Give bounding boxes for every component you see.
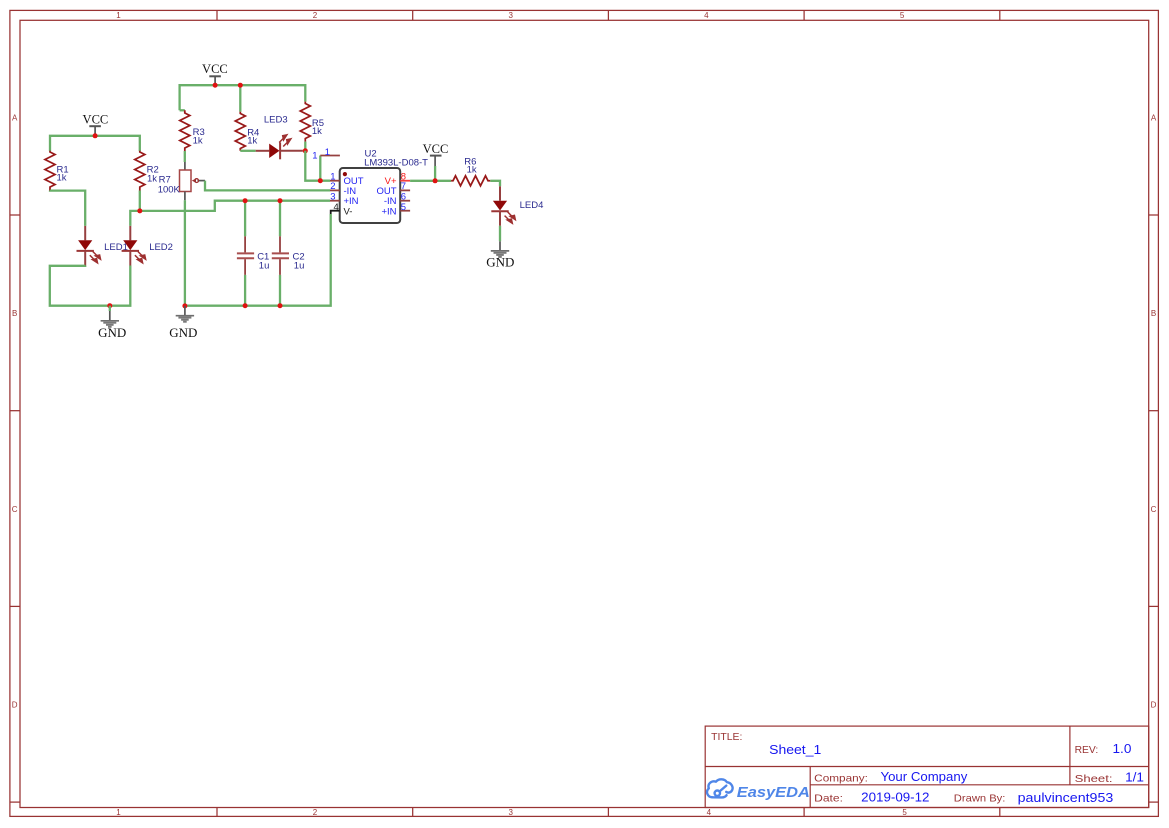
svg-text:Your Company: Your Company xyxy=(881,769,968,784)
svg-text:5: 5 xyxy=(902,808,907,817)
pin 5 stub xyxy=(400,210,410,212)
svg-text:Sheet_1: Sheet_1 xyxy=(769,742,821,757)
wire junction to +IN rail xyxy=(140,201,330,211)
power flag VCC (middle) xyxy=(202,62,228,85)
potentiometer R7 xyxy=(180,162,206,200)
ground GND3 xyxy=(486,241,514,269)
junction VCC2 xyxy=(213,83,218,88)
wire V- to GND rail xyxy=(185,214,331,306)
wire netport riser xyxy=(319,156,321,181)
svg-text:VCC: VCC xyxy=(202,62,228,76)
svg-text:+IN: +IN xyxy=(381,206,396,217)
svg-text:1k: 1k xyxy=(467,165,477,176)
svg-text:6: 6 xyxy=(401,191,406,202)
svg-text:1: 1 xyxy=(116,11,121,20)
junction R4 top xyxy=(238,83,243,88)
svg-text:Date:: Date: xyxy=(814,793,843,805)
wire to pin1 xyxy=(305,151,330,181)
wire jog to R3 xyxy=(180,109,185,111)
svg-text:GND: GND xyxy=(98,325,126,340)
power flag VCC (left) xyxy=(83,112,109,135)
resistor R1 xyxy=(45,151,55,191)
wire GND1 stub xyxy=(109,306,111,311)
svg-text:Company:: Company: xyxy=(814,773,868,785)
svg-text:LED4: LED4 xyxy=(520,200,544,211)
svg-text:1k: 1k xyxy=(193,136,203,147)
resistor R5 xyxy=(300,102,310,142)
svg-text:Drawn By:: Drawn By: xyxy=(954,793,1006,805)
junction pin1 xyxy=(318,178,323,183)
svg-text:1.0: 1.0 xyxy=(1113,741,1132,756)
svg-text:VCC: VCC xyxy=(423,142,449,156)
svg-text:1k: 1k xyxy=(312,126,322,137)
LED LED2 xyxy=(122,226,146,266)
pin 1 stub xyxy=(330,180,340,182)
wire R4 bottom to LED3 xyxy=(240,150,255,152)
wire pin8 to R6 xyxy=(410,180,451,182)
svg-text:A: A xyxy=(12,114,18,123)
wire R7 wiper to -IN xyxy=(205,181,330,191)
resistor R6 xyxy=(451,176,490,186)
svg-text:V-: V- xyxy=(344,206,353,217)
svg-text:2019-09-12: 2019-09-12 xyxy=(861,789,929,804)
wire R2 bottom to junction xyxy=(139,191,141,211)
wire LED1 bottom to GND rail xyxy=(50,266,131,306)
svg-text:2: 2 xyxy=(313,808,318,817)
wire R4 top xyxy=(239,85,241,112)
net stub 1 xyxy=(320,155,340,157)
resistor R4 xyxy=(235,112,245,151)
junction GND1 xyxy=(107,303,112,308)
ground GND1 xyxy=(98,311,126,340)
svg-text:3: 3 xyxy=(508,808,513,817)
junction C2 top xyxy=(278,198,283,203)
svg-text:1: 1 xyxy=(325,147,330,158)
wire R1 bottom to LED1 xyxy=(50,191,85,226)
wire LED4 to GND xyxy=(499,226,501,242)
junction C2 bottom xyxy=(278,303,283,308)
junction C1 bottom xyxy=(243,303,248,308)
wire junction to LED2 xyxy=(130,211,140,226)
junction VCC3 xyxy=(433,178,438,183)
pin 6 stub xyxy=(400,200,410,202)
svg-text:EasyEDA: EasyEDA xyxy=(737,784,810,801)
junction LED3/R5 xyxy=(303,148,308,153)
svg-text:1: 1 xyxy=(116,808,121,817)
junction R2/LED2 xyxy=(137,208,142,213)
wire R7 bottom to GND2 xyxy=(184,200,186,306)
junction at VCC1 xyxy=(93,133,98,138)
resistor R2 xyxy=(135,151,145,191)
LED LED4 xyxy=(491,186,515,226)
capacitor C1 xyxy=(237,201,254,306)
svg-text:C: C xyxy=(1151,505,1157,514)
resistor R3 xyxy=(180,110,190,151)
svg-text:paulvincent953: paulvincent953 xyxy=(1018,790,1114,805)
svg-text:B: B xyxy=(1151,309,1156,318)
svg-text:5: 5 xyxy=(401,202,406,213)
svg-text:Sheet:: Sheet: xyxy=(1075,773,1113,785)
svg-text:REV:: REV: xyxy=(1075,744,1099,756)
svg-text:4: 4 xyxy=(707,808,712,817)
svg-text:VCC: VCC xyxy=(83,112,109,126)
LED LED3 xyxy=(256,135,303,160)
svg-text:4: 4 xyxy=(334,202,339,213)
svg-text:TITLE:: TITLE: xyxy=(711,731,742,743)
capacitor C2 xyxy=(272,201,289,306)
pin 8 stub xyxy=(400,180,410,182)
svg-text:1u: 1u xyxy=(294,261,305,272)
svg-text:B: B xyxy=(12,309,17,318)
wire R5 bottom xyxy=(304,142,306,151)
pin 2 stub xyxy=(330,189,340,191)
svg-text:2: 2 xyxy=(313,11,318,20)
svg-text:C: C xyxy=(12,505,18,514)
ground GND2 xyxy=(169,306,197,340)
svg-text:1k: 1k xyxy=(147,174,157,185)
svg-text:1k: 1k xyxy=(247,136,257,147)
svg-text:LED2: LED2 xyxy=(149,242,173,253)
svg-text:LED3: LED3 xyxy=(264,115,288,126)
svg-text:LM393L-D08-T: LM393L-D08-T xyxy=(364,157,428,168)
LED LED1 xyxy=(77,226,101,266)
svg-text:1: 1 xyxy=(312,151,317,162)
svg-text:4: 4 xyxy=(704,11,709,20)
svg-text:GND: GND xyxy=(486,254,514,269)
wire VCC2 rail xyxy=(180,85,306,110)
junction GND2 xyxy=(182,303,187,308)
svg-text:3: 3 xyxy=(330,191,335,202)
power flag VCC (right) xyxy=(423,142,449,181)
wire R3 to R7 xyxy=(184,151,186,162)
wire R6 to LED4 xyxy=(490,181,500,187)
svg-text:GND: GND xyxy=(169,325,197,340)
pin 4 stub V- xyxy=(331,211,340,214)
svg-text:D: D xyxy=(1151,701,1157,710)
svg-text:5: 5 xyxy=(900,11,905,20)
svg-text:1u: 1u xyxy=(259,261,270,272)
op-amp U2 xyxy=(330,168,410,223)
svg-text:D: D xyxy=(12,701,18,710)
svg-text:3: 3 xyxy=(508,11,513,20)
junction C1 top xyxy=(243,198,248,203)
svg-text:1k: 1k xyxy=(57,173,67,184)
svg-text:1/1: 1/1 xyxy=(1125,770,1144,785)
pin 7 stub xyxy=(400,189,410,191)
svg-text:A: A xyxy=(1151,114,1157,123)
pin 3 stub xyxy=(330,200,340,202)
svg-text:100K: 100K xyxy=(158,184,181,195)
wire VCC rail left xyxy=(50,136,140,151)
